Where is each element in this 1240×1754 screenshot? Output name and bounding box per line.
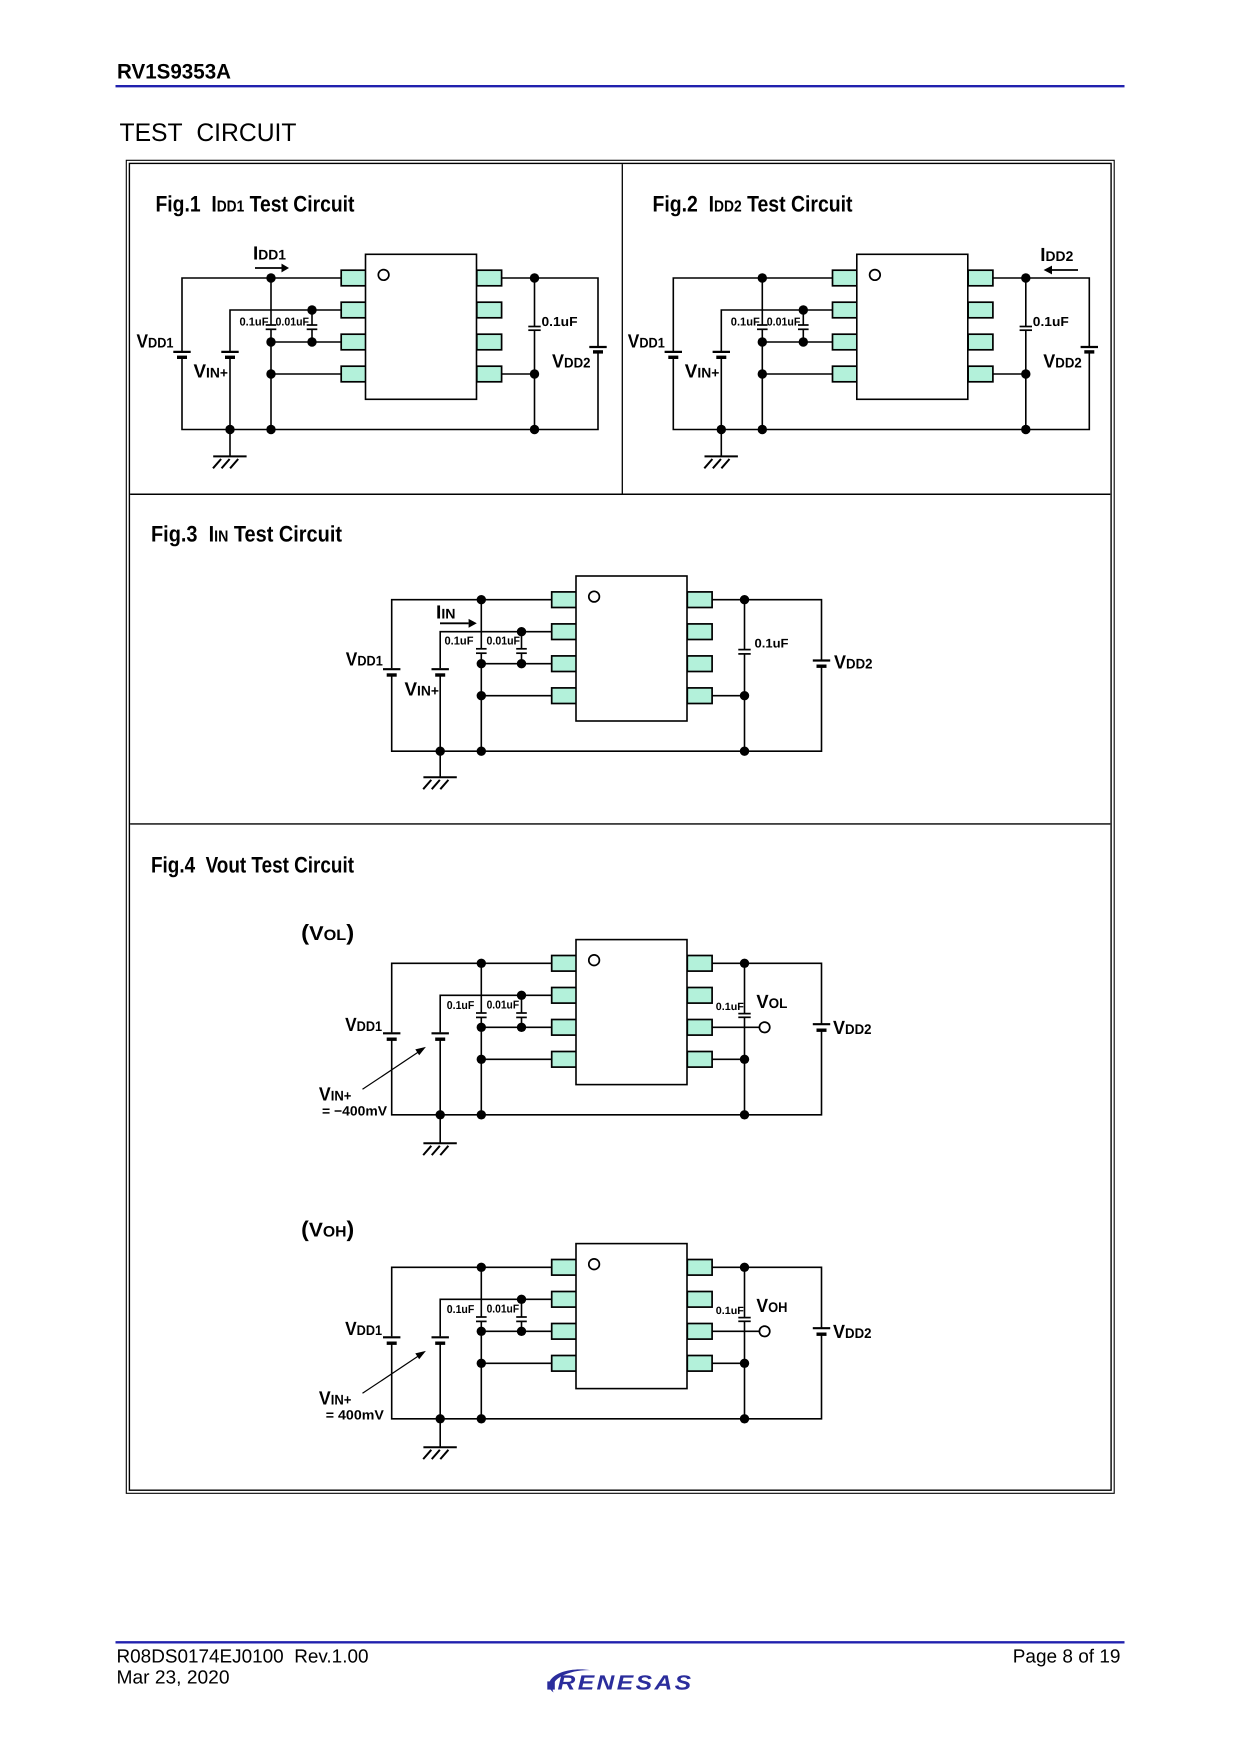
divider between Fig.1 and Fig.2 (621, 164, 623, 494)
Fig.4 VOH: pin 6 (right) (687, 1324, 712, 1340)
Fig.1: pin 7 (right) (477, 302, 502, 318)
Fig.4 VOL: pin 8 (right) (687, 956, 712, 972)
Fig.4 VOH: wire output 0.1uF branch (bottom) (744, 1321, 746, 1419)
Fig.4 VOL: pin 4 (left) (552, 1052, 577, 1068)
Fig.4 VOL: battery VDD1 (383, 1033, 400, 1039)
svg-text:Page 8 of 19: Page 8 of 19 (1013, 1647, 1121, 1668)
Fig.4 VOL: IC under test (8-pin DUT) (552, 940, 712, 1085)
Fig.2: wire 0.1uF branch (bottom) (761, 329, 763, 429)
Fig.4 VOH: wire to pin3 (481, 1330, 551, 1332)
Fig.3: wire output 0.1uF branch (top) (744, 600, 746, 650)
Fig.2: wire pin8 to VDD2 rail (top right) (993, 278, 1089, 347)
svg-text:Mar 23, 2020: Mar 23, 2020 (117, 1668, 230, 1689)
Fig.2: pin 5 (right) (968, 366, 993, 382)
svg-text:VDD1: VDD1 (137, 332, 174, 353)
Fig.2: battery VDD1 (665, 352, 682, 357)
Fig.4 VOL: wire output 0.1uF branch (bottom) (744, 1017, 746, 1115)
Fig.2: capacitor 0.1uF (input) (757, 325, 768, 329)
Fig.3: wire VDD1 rail to pin1 (top) (392, 600, 552, 669)
svg-text:IDD1: IDD1 (253, 244, 286, 265)
svg-text:0.1uF: 0.1uF (445, 636, 474, 648)
Fig.4 VOL: wire to pin4 (481, 1058, 551, 1060)
Fig.4 VOL: pointer arrow to VIN+ source (363, 1047, 426, 1089)
svg-text:0.1uF: 0.1uF (716, 1001, 745, 1013)
Fig.1: wire 0.01uF branch (bottom) (311, 329, 313, 342)
Fig.3: wire VIN+ rail bottom (439, 675, 441, 751)
Fig.4 VOH: wire pin8 to VDD2 rail (top right) (712, 1267, 821, 1328)
svg-text:0.1uF: 0.1uF (240, 317, 269, 329)
svg-text:IDD2: IDD2 (1040, 245, 1073, 266)
Fig.1: capacitor 0.1uF (input) (266, 325, 277, 329)
Fig.1: pin 4 (left) (341, 366, 366, 382)
Fig.4 VOH: capacitor 0.1uF (input) (476, 1317, 487, 1321)
Fig.4 VOL: wire to pin3 (481, 1026, 551, 1028)
Fig.4 VOH: wire VIN+ rail bottom (439, 1343, 441, 1419)
svg-text:0.1uF: 0.1uF (447, 1304, 475, 1316)
svg-text:RV1S9353A: RV1S9353A (117, 60, 231, 83)
Fig.4 VOH: pin 8 (right) (687, 1260, 712, 1276)
Fig.2: wire output 0.1uF branch (bottom) (1025, 330, 1027, 429)
Fig.3: capacitor 0.1uF (output) (738, 650, 750, 654)
Fig.1: wire to pin4 (271, 373, 341, 375)
Fig.2: IC under test (8-pin DUT) (833, 254, 993, 399)
Fig.2: wire output 0.1uF branch (top) (1025, 278, 1027, 327)
svg-text:VDD1: VDD1 (345, 1015, 382, 1036)
svg-text:VDD2: VDD2 (833, 1322, 872, 1343)
Fig.3: pin 7 (right) (687, 624, 712, 640)
svg-text:VIN+: VIN+ (319, 1084, 352, 1105)
Fig.2: capacitor 0.1uF (output) (1020, 327, 1032, 331)
Fig.1: battery VIN+ (221, 352, 238, 357)
Fig.3: IC body (576, 576, 687, 721)
Fig.2: pin 1 (left) (833, 270, 858, 286)
Fig.3: wire pin5 to output cap (712, 695, 744, 697)
svg-text:= −400mV: = −400mV (322, 1104, 387, 1119)
svg-text:VIN+: VIN+ (194, 362, 229, 383)
Fig.1: wire pin8 to VDD2 rail (top right) (502, 278, 598, 347)
Fig.3: wire 0.1uF branch (bottom) (480, 653, 482, 751)
divider under Fig.1/Fig.2 (130, 493, 1110, 495)
svg-text:IIN: IIN (436, 603, 456, 624)
Fig.4 VOH: wire pin6 to VOH output terminal (712, 1330, 759, 1332)
svg-text:RENESAS: RENESAS (558, 1672, 694, 1695)
Fig.3: wire 0.01uF branch (bottom) (521, 653, 523, 664)
Fig.4 VOL: pin-1 index mark (589, 955, 600, 966)
Fig.4 VOL: wire 0.01uF branch (top) (521, 995, 523, 1013)
Fig.4 VOH: pin-1 index mark (589, 1259, 600, 1270)
Fig.3: wire pin8 to VDD2 rail (top right) (712, 600, 821, 661)
svg-text:0.1uF: 0.1uF (542, 314, 578, 329)
Fig.4 VOL: output terminal VOL (759, 1022, 769, 1032)
Fig.1: wire VDD1 rail to pin1 (top) (182, 278, 341, 351)
Fig.2: wire pin5 to output cap (993, 373, 1026, 375)
svg-text:0.1uF: 0.1uF (716, 1305, 745, 1317)
Fig.1: battery VDD1 (173, 352, 190, 357)
Renesas logo (547, 1669, 693, 1694)
Fig.1: wire pin5 to output cap (502, 373, 535, 375)
Fig.1: wire VDD1 rail bottom / GND bus / VDD2 rail bottom (182, 352, 598, 430)
Fig.2: wire 0.01uF branch (top) (802, 310, 804, 325)
Fig.4 VOL: capacitor 0.1uF (input) (476, 1013, 487, 1017)
Fig.4 VOL: wire VIN+ rail bottom (439, 1039, 441, 1115)
Fig.4 VOL: pin 5 (right) (687, 1052, 712, 1068)
Fig.2: IC body (857, 254, 968, 399)
Fig.4 VOL: battery VIN+ (432, 1033, 449, 1039)
Fig.3: pin 4 (left) (552, 688, 577, 704)
Fig.2: battery VDD2 (1081, 347, 1098, 352)
svg-text:Fig.4 Vout Test Circuit: Fig.4 Vout Test Circuit (151, 853, 354, 878)
Fig.2: wire 0.01uF branch (bottom) (802, 329, 804, 342)
Fig.1: wire to pin3 (271, 341, 341, 343)
Fig.1: wire output 0.1uF branch (top) (534, 278, 536, 327)
Fig.3: wire to pin4 (481, 695, 551, 697)
svg-text:VOH: VOH (756, 1296, 787, 1317)
Fig.3: battery VDD1 (383, 669, 400, 675)
Fig.2: wire to pin4 (762, 373, 832, 375)
Fig.3: pin 8 (right) (687, 592, 712, 608)
Fig.2: pin 8 (right) (968, 270, 993, 286)
Fig.2: pin 4 (left) (833, 366, 858, 382)
Fig.1: wire 0.01uF branch (top) (311, 310, 313, 325)
Fig.3: IC under test (8-pin DUT) (552, 576, 712, 721)
outer frame (double border) (126, 160, 1114, 1493)
svg-text:0.01uF: 0.01uF (487, 1304, 519, 1316)
Fig.2: pin-1 index mark (870, 270, 881, 281)
Fig.4 VOH: wire VDD1 rail to pin1 (top) (392, 1267, 552, 1336)
Fig.1: pin 6 (right) (477, 334, 502, 350)
svg-text:VOL: VOL (756, 992, 787, 1013)
Fig.4 VOH: pin 1 (left) (552, 1260, 577, 1276)
Fig.3: junction dots (436, 595, 750, 756)
Fig.4 VOL: pin 1 (left) (552, 956, 577, 972)
Fig.4 VOL: wire pin5 to output cap (712, 1058, 744, 1060)
svg-text:0.01uF: 0.01uF (767, 317, 801, 329)
Fig.2: pin 6 (right) (968, 334, 993, 350)
Fig.4 VOH: pointer arrow to VIN+ source (363, 1351, 426, 1393)
Fig.1: capacitor 0.01uF (307, 325, 318, 329)
Fig.3: wire 0.1uF branch (top) (480, 600, 482, 649)
svg-text:0.01uF: 0.01uF (487, 1000, 519, 1012)
Fig.3: ground (423, 751, 457, 789)
Fig.4 VOL: ground (423, 1115, 457, 1155)
Fig.1: ground (213, 430, 247, 469)
Fig.4 VOL: wire 0.1uF branch (top) (480, 963, 482, 1013)
Fig.3: wire output 0.1uF branch (bottom) (744, 654, 746, 751)
svg-text:= 400mV: = 400mV (326, 1408, 384, 1423)
Fig.4 VOH: IC body (576, 1244, 687, 1389)
Fig.4 VOL: pin 3 (left) (552, 1020, 577, 1036)
Fig.3: wire VIN+ rail to pin2 (440, 632, 552, 669)
Fig.4 VOH: wire 0.01uF branch (bottom) (521, 1321, 523, 1331)
Fig.3: pin 3 (left) (552, 656, 577, 672)
Fig.4 VOH: wire pin5 to output cap (712, 1362, 744, 1364)
Fig.4 VOL: junction dots (436, 959, 750, 1120)
Fig.4 VOL: capacitor 0.01uF (516, 1013, 527, 1017)
Fig.4 VOH: wire VIN+ rail to pin2 (440, 1299, 552, 1336)
svg-text:VIN+: VIN+ (685, 362, 720, 383)
Fig.2: ground (704, 430, 738, 469)
Fig.4 VOH: pin 2 (left) (552, 1292, 577, 1308)
Fig.3: pin-1 index mark (589, 591, 600, 602)
Fig.4 VOL: wire pin6 to VOL output terminal (712, 1026, 759, 1028)
Fig.2: wire to pin3 (762, 341, 832, 343)
Fig.1: wire output 0.1uF branch (bottom) (534, 330, 536, 429)
Fig.4 VOH: IC under test (8-pin DUT) (552, 1244, 712, 1389)
Fig.2: wire VDD1 rail to pin1 (top) (673, 278, 832, 351)
svg-text:R08DS0174EJ0100 Rev.1.00: R08DS0174EJ0100 Rev.1.00 (117, 1647, 369, 1668)
svg-text:Fig.3 IIN Test Circuit: Fig.3 IIN Test Circuit (151, 522, 342, 547)
Fig.2: battery VIN+ (713, 352, 730, 357)
Fig.3: wire 0.01uF branch (top) (521, 632, 523, 649)
divider under Fig.3 (130, 823, 1110, 825)
Fig.4 VOL: IC body (576, 940, 687, 1085)
Fig.2: wire VDD1 rail bottom / GND bus / VDD2 rail bottom (673, 352, 1089, 430)
Fig.1: wire VIN+ rail to pin2 (230, 310, 341, 351)
Fig.2: junction dots (717, 273, 1031, 434)
Fig.2: pin 2 (left) (833, 302, 858, 318)
svg-text:VDD1: VDD1 (345, 1319, 382, 1340)
Fig.1: pin 2 (left) (341, 302, 366, 318)
Fig.1: pin 3 (left) (341, 334, 366, 350)
Fig.4 VOH: battery VDD2 (813, 1328, 830, 1334)
svg-text:0.1uF: 0.1uF (447, 1000, 475, 1012)
header rule (116, 85, 1125, 87)
Fig.1: pin 1 (left) (341, 270, 366, 286)
Fig.3: battery VDD2 (813, 661, 830, 667)
Fig.4 VOH: capacitor 0.01uF (516, 1317, 527, 1321)
Fig.4 VOL: pin 6 (right) (687, 1020, 712, 1036)
Fig.1: IC under test (8-pin DUT) (341, 254, 501, 399)
svg-text:VDD1: VDD1 (346, 650, 383, 671)
Fig.4 VOL: pin 2 (left) (552, 988, 577, 1004)
Fig.4 VOH: pin 5 (right) (687, 1356, 712, 1372)
Fig.2: pin 7 (right) (968, 302, 993, 318)
svg-text:VIN+: VIN+ (319, 1388, 352, 1409)
svg-text:VIN+: VIN+ (405, 680, 440, 701)
Fig.4 VOH: ground (423, 1419, 457, 1459)
Fig.3: capacitor 0.1uF (input) (476, 649, 487, 653)
Fig.1: wire VIN+ rail bottom (229, 357, 231, 429)
svg-text:Fig.1 IDD1 Test Circuit: Fig.1 IDD1 Test Circuit (156, 192, 355, 217)
Fig.4 VOL: wire pin8 to VDD2 rail (top right) (712, 963, 821, 1024)
Fig.4 VOH: capacitor 0.1uF (output) (738, 1318, 750, 1322)
svg-text:VDD2: VDD2 (552, 352, 591, 373)
svg-text:Fig.2 IDD2 Test Circuit: Fig.2 IDD2 Test Circuit (653, 192, 853, 217)
Fig.3: pin 1 (left) (552, 592, 577, 608)
Fig.4 VOH: output terminal VOH (759, 1326, 769, 1336)
Fig.1: wire 0.1uF branch (top) (270, 278, 272, 325)
svg-text:TEST CIRCUIT: TEST CIRCUIT (120, 119, 297, 147)
Fig.4 VOL: wire VIN+ rail to pin2 (440, 995, 552, 1032)
Fig.1: junction dots (225, 273, 539, 434)
svg-text:VDD2: VDD2 (1043, 352, 1082, 373)
Fig.4 VOH: pin 7 (right) (687, 1292, 712, 1308)
Fig.4 VOL: battery VDD2 (813, 1024, 830, 1030)
svg-text:VDD2: VDD2 (834, 653, 873, 674)
Fig.2: wire VIN+ rail bottom (720, 357, 722, 429)
Fig.1: pin 5 (right) (477, 366, 502, 382)
Fig.4 VOH: wire VDD1 rail bottom / GND bus / VDD2 rail bottom (392, 1334, 822, 1419)
svg-text:0.01uF: 0.01uF (487, 636, 521, 648)
Fig.4 VOH: wire to pin4 (481, 1362, 551, 1364)
Fig.1: pin 8 (right) (477, 270, 502, 286)
Fig.4 VOL: pin 7 (right) (687, 988, 712, 1004)
Fig.4 VOH: battery VIN+ (432, 1337, 449, 1343)
Fig.4 VOL: wire output 0.1uF branch (top) (744, 963, 746, 1014)
Fig.2: wire VIN+ rail to pin2 (721, 310, 832, 351)
Fig.1: IC body (366, 254, 477, 399)
Fig.1: wire 0.1uF branch (bottom) (270, 329, 272, 429)
Fig.3: pin 5 (right) (687, 688, 712, 704)
Fig.3: battery VIN+ (432, 669, 449, 675)
svg-text:0.1uF: 0.1uF (755, 637, 789, 651)
Fig.4 VOL: wire VDD1 rail bottom / GND bus / VDD2 rail bottom (392, 1030, 822, 1115)
Fig.4 VOH: wire output 0.1uF branch (top) (744, 1267, 746, 1318)
Fig.3: wire to pin3 (481, 663, 551, 665)
Fig.1: capacitor 0.1uF (output) (528, 327, 540, 331)
Fig.1: battery VDD2 (589, 347, 606, 352)
svg-text:VDD2: VDD2 (833, 1018, 872, 1039)
Fig.2: pin 3 (left) (833, 334, 858, 350)
footer rule (116, 1641, 1125, 1643)
Fig.1: pin-1 index mark (378, 270, 389, 281)
Fig.4 VOL: capacitor 0.1uF (output) (738, 1014, 750, 1018)
Fig.4 VOL: wire 0.1uF branch (bottom) (480, 1017, 482, 1114)
Fig.4 VOH: wire 0.1uF branch (bottom) (480, 1321, 482, 1418)
Fig.3: capacitor 0.01uF (516, 649, 527, 653)
Fig.2: capacitor 0.01uF (798, 325, 809, 329)
Fig.3: pin 2 (left) (552, 624, 577, 640)
Fig.4 VOL: wire 0.01uF branch (bottom) (521, 1017, 523, 1027)
Fig.3: wire VDD1 rail bottom / GND bus / VDD2 rail bottom (392, 666, 822, 751)
Fig.4 VOH: wire 0.01uF branch (top) (521, 1299, 523, 1317)
Fig.4 VOH: pin 4 (left) (552, 1356, 577, 1372)
svg-text:0.01uF: 0.01uF (276, 317, 310, 329)
Fig.4 VOH: junction dots (436, 1263, 750, 1424)
Fig.2: wire 0.1uF branch (top) (761, 278, 763, 325)
Fig.4 VOH: pin 3 (left) (552, 1324, 577, 1340)
Fig.4 VOH: wire 0.1uF branch (top) (480, 1267, 482, 1317)
Fig.3: pin 6 (right) (687, 656, 712, 672)
svg-text:0.1uF: 0.1uF (731, 317, 760, 329)
svg-text:0.1uF: 0.1uF (1033, 314, 1069, 329)
Fig.4 VOL: wire VDD1 rail to pin1 (top) (392, 963, 552, 1032)
Fig.4 VOH: battery VDD1 (383, 1337, 400, 1343)
svg-text:VDD1: VDD1 (628, 332, 665, 353)
